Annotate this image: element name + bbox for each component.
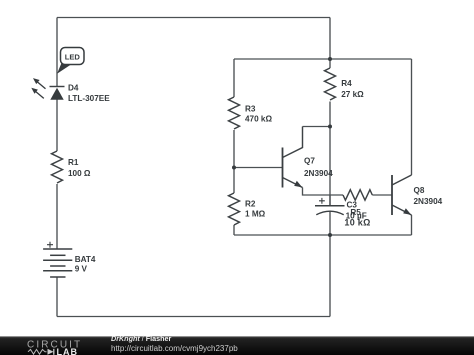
svg-text:R4: R4: [341, 79, 352, 88]
transistor Q7: [283, 127, 303, 188]
wire inner left top: [233, 59, 235, 97]
label R2: [245, 199, 266, 218]
resistor R2: [229, 193, 240, 225]
resistor R3: [229, 97, 240, 129]
svg-text:Q8: Q8: [414, 186, 425, 195]
label BAT4: [75, 255, 96, 274]
label R5: [344, 208, 370, 228]
label R1: [68, 158, 91, 178]
wire Q8 collector drop: [411, 59, 413, 175]
node junction at R4 top: [328, 57, 332, 61]
svg-text:BAT4: BAT4: [75, 255, 96, 264]
footer url: [111, 344, 238, 353]
wire BAT4 to bottom rail: [56, 277, 58, 317]
svg-text:DrKnght / Flasher: DrKnght / Flasher: [111, 334, 172, 343]
label R4: [341, 79, 364, 99]
svg-text:2N3904: 2N3904: [304, 169, 333, 178]
resistor R4: [325, 68, 336, 100]
label D4: [68, 83, 110, 103]
svg-text:C3: C3: [347, 200, 358, 209]
svg-text:R1: R1: [68, 158, 79, 167]
wire R4 top stub: [329, 59, 331, 68]
wire node to C3: [329, 127, 331, 206]
wire LED anode to R1: [56, 100, 58, 152]
node junction R3/R2/Q7 base: [232, 166, 236, 170]
wire R1 to BAT4: [56, 184, 58, 249]
wire top rail: [57, 17, 330, 19]
svg-text:D4: D4: [68, 83, 79, 92]
label R3: [245, 104, 272, 123]
wire left rail: [56, 18, 58, 87]
svg-text:Q7: Q7: [304, 157, 315, 166]
diode D4 LED: [31, 78, 64, 100]
footer bar: [0, 336, 474, 355]
svg-text:2N3904: 2N3904: [414, 197, 443, 206]
svg-text:470 kΩ: 470 kΩ: [245, 115, 272, 124]
resistor R5 (horizontal): [343, 190, 372, 201]
svg-text:LAB: LAB: [57, 347, 79, 355]
label Q7: [304, 157, 333, 178]
resistor R1: [52, 151, 63, 183]
LED annotation bubble: [57, 48, 84, 74]
wire top right drop: [329, 18, 331, 60]
transistor Q8: [392, 175, 412, 215]
wire C3 to bottom: [329, 212, 331, 317]
svg-text:100 Ω: 100 Ω: [68, 169, 91, 178]
svg-text:LTL-307EE: LTL-307EE: [68, 94, 110, 103]
footer author / title: [111, 334, 172, 343]
wire Q7 collector tap: [303, 126, 331, 128]
svg-text:R3: R3: [245, 104, 256, 113]
svg-text:1 MΩ: 1 MΩ: [245, 210, 266, 219]
wire Q7 base: [234, 167, 283, 169]
wire mid horizontal rail: [234, 58, 412, 60]
capacitor C3: [315, 195, 345, 215]
battery BAT4: [43, 242, 72, 277]
label Q8: [414, 186, 443, 206]
wire R3 to R2: [233, 130, 235, 193]
wire Q8 emitter to rail: [411, 215, 413, 235]
wire R2 to inner bottom rail: [233, 225, 235, 235]
svg-text:10 µF: 10 µF: [346, 211, 367, 220]
wire R5 to Q8 base: [372, 194, 392, 196]
wire bottom rail: [57, 316, 330, 318]
wire Q7 emitter to R5: [303, 188, 344, 196]
svg-text:http://circuitlab.com/cvmj9ych: http://circuitlab.com/cvmj9ych237pb: [111, 344, 238, 353]
node junction C3 bottom on rail: [328, 233, 332, 237]
svg-text:9 V: 9 V: [75, 265, 88, 274]
node junction at R4 bottom / Q7 collector: [328, 125, 332, 129]
wire R4 bottom to collector node: [329, 102, 331, 127]
svg-text:R2: R2: [245, 199, 256, 208]
footer CircuitLab logo: [27, 340, 82, 355]
svg-text:LED: LED: [65, 52, 81, 61]
svg-text:27 kΩ: 27 kΩ: [341, 90, 364, 99]
wire inner bottom rail: [234, 234, 412, 236]
label C3: [346, 200, 367, 220]
